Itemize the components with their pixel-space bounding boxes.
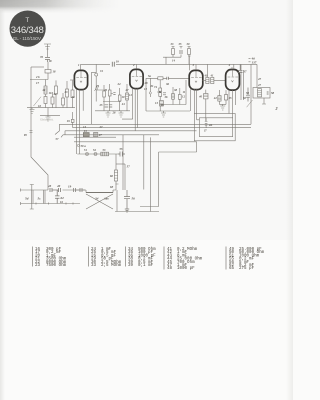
resistor 27b [94,133,103,138]
pot wiper [95,88,97,90]
wire: left verticals [146,78,150,111]
svg-text:40: 40 [56,184,61,188]
node: top right tick [249,59,251,62]
capacitor 50 [246,88,250,102]
wire: bus E [74,137,144,142]
resistor 16c [172,94,175,100]
resistor 53 [101,152,109,156]
PARTS LIST [33,247,265,272]
ballast 34 [86,190,113,209]
svg-text:7500 Ohm: 7500 Ohm [46,263,67,268]
resistor 13 [83,129,89,137]
svg-text:34: 34 [94,197,99,201]
output stage lower parts [198,90,232,121]
dial lamps row [77,147,125,157]
svg-text:17: 17 [36,81,40,85]
smoothing section [110,184,159,212]
top bus 1 [81,63,137,65]
svg-text:48: 48 [160,103,165,107]
svg-text:24: 24 [121,102,125,106]
trimmer circle [149,92,151,94]
ground (cathode) [30,110,35,114]
svg-text:26: 26 [103,88,108,92]
svg-text:20: 20 [71,95,76,99]
wire: top ticks [172,46,191,48]
svg-text:40: 40 [198,95,203,99]
tube V4 [226,70,240,91]
dropper resistor 60 [110,154,118,190]
resistor 24b [118,95,121,101]
interstage cluster 2 [144,74,190,117]
wire: left rail top corner [31,66,44,68]
wire: verticals [104,84,127,111]
wire: grid line 2b [30,79,48,81]
svg-text:275 pF: 275 pF [239,267,255,271]
wire: V3 legs [191,89,200,120]
resistor 17 [44,86,47,94]
ground (interstage2) [161,111,166,117]
wire: ties [146,92,190,111]
wire: lower mains bus [21,203,81,205]
wire: V1 plate to top bus [80,64,82,69]
svg-text:40: 40 [204,73,208,77]
top-left grey scan band [0,0,120,13]
wire: ties [96,90,121,102]
resistor 21 [44,97,47,104]
svg-text:39: 39 [128,264,134,268]
capacitor 18 [74,188,83,192]
svg-text:21: 21 [42,88,47,92]
svg-text:31: 31 [99,69,103,73]
svg-text:2: 2 [275,106,278,111]
scattered labels [36,59,262,129]
svg-text:30: 30 [186,42,190,46]
wire: bus corners left [55,124,65,137]
pot arrow [34,97,42,106]
svg-text:GL - 110/150V: GL - 110/150V [13,36,42,41]
svg-text:48: 48 [167,267,173,271]
top bus 2 [137,63,258,65]
resistor 30 [188,49,191,55]
svg-text:19: 19 [67,119,71,123]
svg-text:Gleichricht.: Gleichricht. [40,119,54,122]
svg-text:41: 41 [210,73,214,77]
capacitor 29b [113,92,115,94]
pot circle 22 [95,73,98,76]
wire: screen feed pair [241,64,244,100]
svg-text:1000 pF: 1000 pF [177,267,195,271]
plug pin [30,185,34,210]
resistor 33 [172,49,175,55]
wire: V4 legs [229,90,236,118]
svg-text:47: 47 [257,83,261,87]
svg-text:35: 35 [178,42,182,46]
mains section [21,184,117,209]
switch 5c [44,190,46,204]
badge T 346/348 [10,11,46,47]
tube V3 [189,70,203,89]
coupler 18 [45,70,51,74]
node ticks mains [36,203,73,205]
resistor 74 [159,88,162,91]
wire: center verticals [160,80,186,111]
capacitor 25 [105,105,113,107]
svg-text:13: 13 [83,125,87,129]
svg-text:22: 22 [53,92,58,96]
resistor 22 [55,86,58,94]
coupler box [158,77,163,80]
svg-text:0,1 mF: 0,1 mF [138,264,154,268]
ground (interstage) [106,111,111,117]
svg-text:27: 27 [99,125,104,129]
ground (input) [46,116,51,121]
wire: bus B [73,127,251,129]
wire: vertical 64 [116,184,119,212]
resistor 23 [66,89,69,97]
lamp circle 59a [77,144,86,148]
capacitor 37 [238,64,243,72]
svg-text:25: 25 [99,103,103,107]
wire: verticals [32,73,73,116]
svg-text:61: 61 [60,200,64,204]
svg-text:65: 65 [229,267,235,271]
wire: lamp row [77,153,118,155]
wire: verticals to bottom [123,135,151,212]
right scan edge [286,0,293,400]
wire: link row [163,57,181,64]
tube V2 [130,69,143,88]
wire: bus D [63,134,159,136]
lamp 51 [85,152,88,155]
top components row [163,42,191,64]
wire: cathode bus [27,107,75,109]
output transformer 58 [253,83,275,98]
box 19 (fuse) [67,112,74,128]
svg-text:36: 36 [164,95,168,99]
resistor 40b [204,94,208,99]
switch 5d [31,190,33,204]
resistor 74b [159,93,162,97]
wire: V4 plate to top bus [232,64,234,69]
capacitor 36b [163,93,166,95]
svg-text:19: 19 [116,60,120,64]
pot arrow 50 [247,100,253,107]
resistor 20 [71,90,74,98]
wire: bus A [59,123,251,125]
ground (output) [220,104,225,110]
wire: V3 plate to top bus [188,56,196,70]
wire: transformer leads [262,98,266,104]
svg-text:26: 26 [112,111,116,115]
wire: branch 57 [124,164,126,190]
svg-text:46: 46 [208,123,213,127]
wire: pot chain [95,64,97,101]
capacitor 28c [167,77,169,80]
resistor 16b [51,97,54,104]
wire: V1 legs [77,90,84,154]
capacitor 19 (coupling) [110,62,116,68]
svg-text:5d: 5d [25,197,29,201]
svg-text:346/348: 346/348 [11,25,44,36]
svg-text:37: 37 [243,70,247,74]
wire: staircase right [140,142,197,207]
svg-text:16: 16 [49,91,53,95]
resistor 23b [62,98,65,105]
svg-text:T: T [25,17,29,24]
svg-text:27: 27 [125,88,130,92]
left scan edge [0,10,5,400]
svg-text:18: 18 [49,59,53,63]
capacitor 43 [50,188,52,192]
svg-text:50: 50 [246,91,250,95]
svg-text:42: 42 [213,96,218,100]
resistor 45b [224,95,227,100]
svg-text:38: 38 [173,88,178,92]
svg-text:28: 28 [144,81,149,85]
svg-text:2,5 MOhm: 2,5 MOhm [101,263,122,268]
svg-text:lam: lam [105,198,109,201]
capacitor 46 [203,118,213,133]
connector mark on rail [30,131,33,133]
svg-text:23: 23 [35,264,41,268]
routing loop outer [194,114,235,141]
routing loop inner [199,118,232,137]
wire: upper mains bus [21,189,117,191]
wire: bottom bus [95,110,130,112]
svg-text:65: 65 [110,185,114,189]
svg-text:31: 31 [150,84,155,88]
svg-text:25: 25 [95,84,100,88]
interstage cluster 1 [92,64,133,124]
svg-text:36: 36 [165,82,170,86]
svg-text:43: 43 [47,184,52,188]
wire: lower bus [40,115,60,117]
lamp 52 [94,152,97,155]
svg-text:56: 56 [132,197,136,201]
capacitor 35 [179,51,183,53]
resistor 30b [103,91,106,97]
svg-text:19: 19 [68,185,72,189]
wire: AVC return [92,72,97,124]
svg-text:32: 32 [158,90,163,94]
capacitor 56 [124,190,130,212]
svg-text:2 b: 2 b [35,75,40,79]
capacitor 40 [59,188,61,192]
wire: verticals below V3/V4 [206,90,226,121]
svg-text:45: 45 [228,96,233,100]
capacitor 62 [55,190,60,204]
svg-text:14: 14 [172,59,176,63]
wire: left end ticks [20,189,22,206]
IF transformer 41 [202,64,225,83]
wire: V2 legs [122,89,138,131]
wire: V2 plate to top bus [136,64,138,68]
wire: V1 grid lead [70,79,75,81]
tube V1 [74,70,87,89]
wire: grid line [146,77,189,79]
capacitor 55 [118,152,125,157]
svg-text:24: 24 [117,82,122,86]
wire: bottom return [115,211,159,213]
input stage cluster [27,73,75,121]
svg-text:47: 47 [257,77,262,81]
wire: long left rail with diagonal [31,67,48,190]
svg-text:33: 33 [91,264,97,268]
svg-text:27: 27 [98,133,102,137]
svg-text:33: 33 [170,42,174,46]
wire: bus C [65,130,197,132]
svg-text:58: 58 [271,91,275,95]
svg-text:5c: 5c [38,197,42,201]
resistor 10 [126,93,129,100]
resistor 42b [218,96,221,102]
resistor 13b [160,101,164,107]
resistor 26b [108,90,111,96]
svg-text:23: 23 [64,90,69,94]
svg-text:137: 137 [252,61,257,65]
wire: bus to output transformer [251,64,257,124]
antenna input [40,44,56,74]
resistor 12c [178,95,181,100]
